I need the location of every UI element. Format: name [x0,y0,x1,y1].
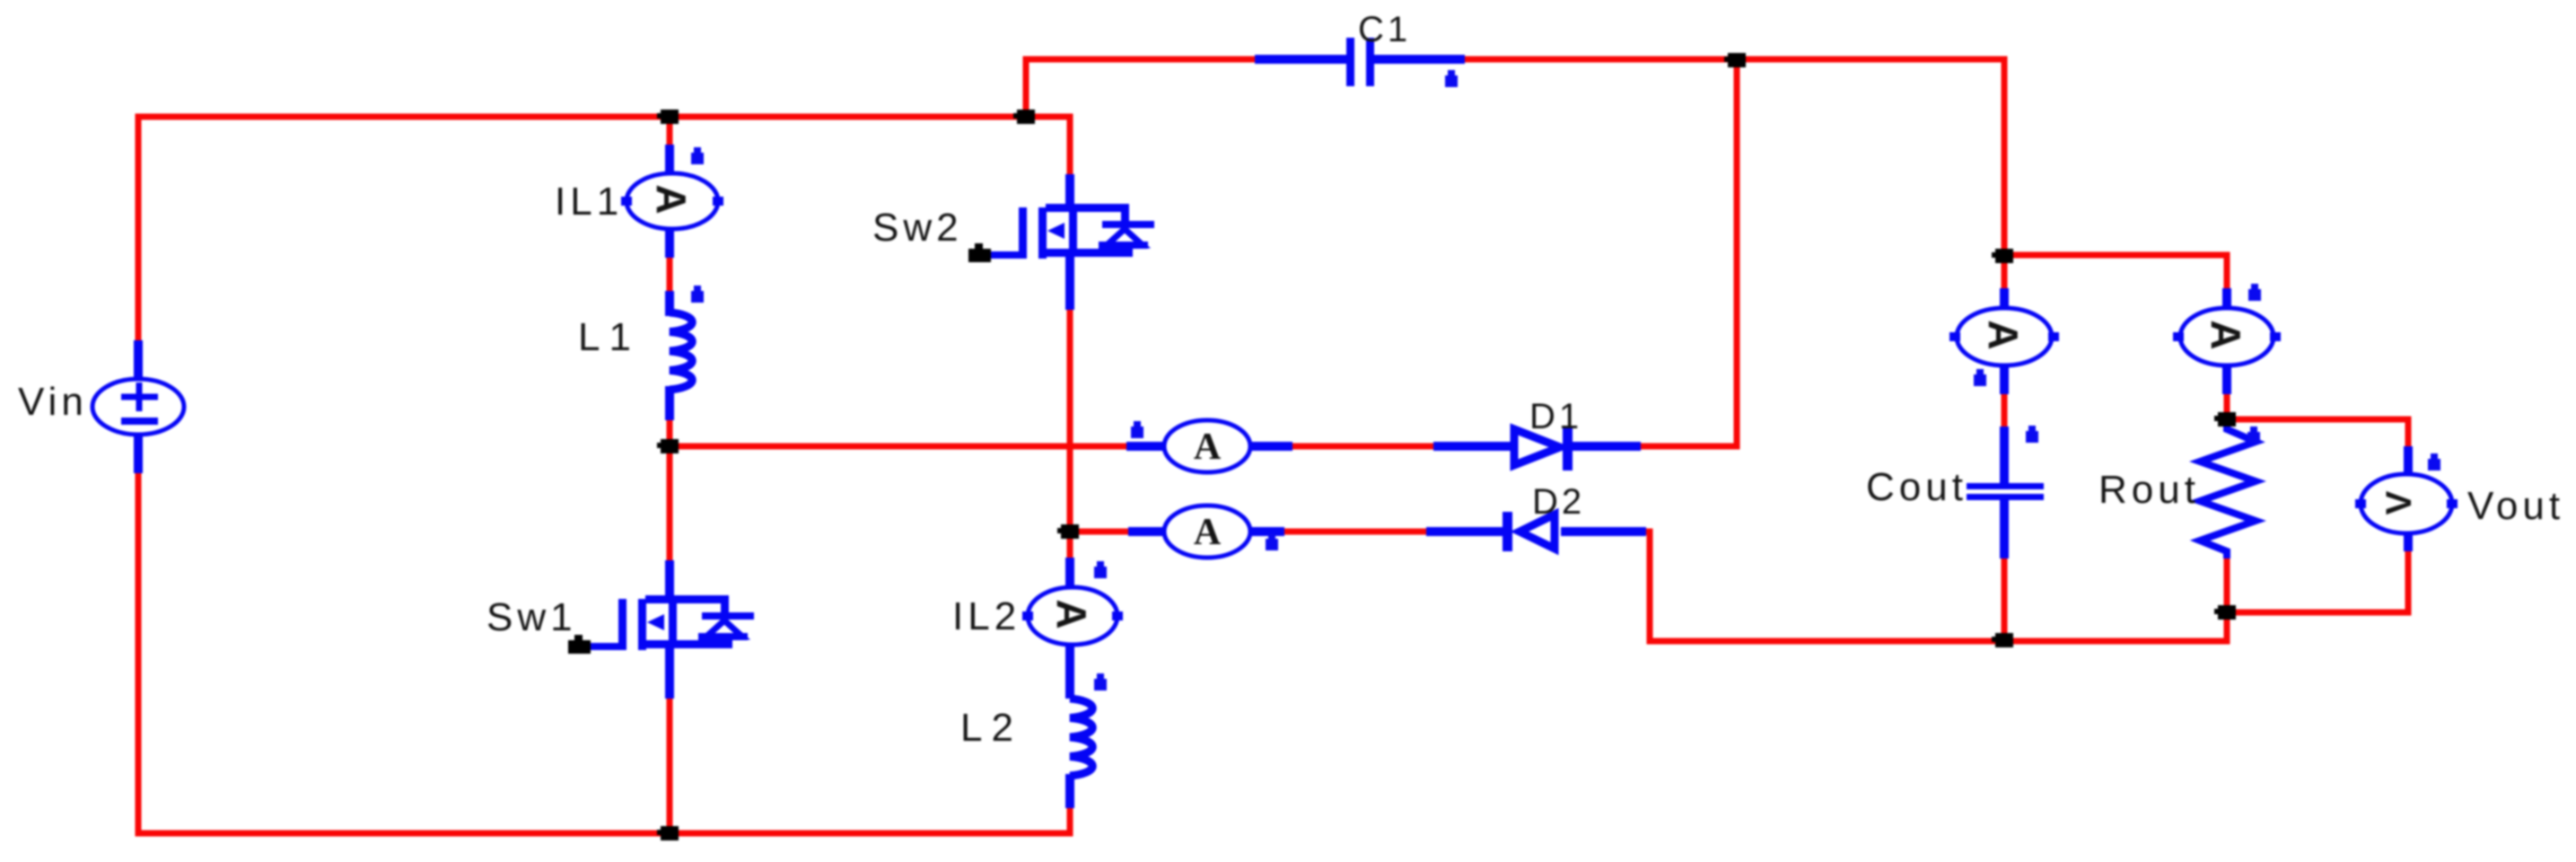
svg-text:Sw1: Sw1 [486,595,577,639]
polarity dot ICout [1974,369,1986,386]
svg-text:C1: C1 [1358,10,1411,49]
svg-text:Cout: Cout [1866,465,1967,509]
svg-text:Sw2: Sw2 [872,206,963,250]
wire: riser from D1 to C1 node [1641,59,1737,446]
junction node Rout bottom / Vout bottom [2214,605,2236,620]
wire: C1 left riser from top rail [1026,59,1255,117]
svg-text:D2: D2 [1532,482,1585,522]
transistor Sw1 [568,560,754,699]
junction node top-right / Cout branch [1992,249,2013,263]
capacitor Cout [1967,427,2044,559]
label Vout [2467,484,2564,528]
polarity dot ammeter row1 [1131,421,1143,438]
diode D1 [1433,428,1641,471]
svg-text:A: A [1048,599,1095,629]
svg-text:Rout: Rout [2098,468,2200,512]
label Sw1 [486,595,577,639]
wire: D2 cathode down to output bottom rail [1646,532,2227,641]
transistor Sw2 [968,174,1154,310]
wire: row1 mid red [1292,444,1433,450]
label L1 [578,315,640,359]
wire: node B stub to ammeter [1070,529,1128,535]
ammeter IL2 [1022,558,1123,699]
wire: top rail from Vin to Sw2 drain [138,117,1070,340]
wire: Sw2 source down to node B [1067,310,1073,558]
voltage source Vin [92,340,184,473]
junction node top rail / C1 riser [1013,110,1035,124]
svg-text:A: A [1194,427,1222,468]
svg-text:V: V [2379,490,2419,515]
polarity dot L1 [691,286,704,303]
wire: Sw1 source to bottom rail [667,699,673,833]
wire: IL1 top stub [667,117,673,145]
svg-text:IL2: IL2 [952,594,1021,638]
polarity dot Vout [2428,453,2440,471]
wire: L1 to Sw1 drain [667,420,673,560]
junction node Rout top / Vout link [2214,412,2236,427]
capacitor C1 [1255,38,1465,86]
polarity dot C1 [1445,70,1458,87]
svg-text:L2: L2 [960,706,1022,750]
label IL1 [555,180,623,224]
label D2 [1532,482,1585,522]
wire: Rout branch red stubs [2224,394,2230,612]
label Rout [2098,468,2200,512]
wire: C1 right to top-right corner [1465,59,2004,255]
svg-text:Vin: Vin [18,380,88,424]
polarity dot Rout [2247,427,2260,444]
wire: Cout branch red stubs [2002,255,2008,641]
junction node top rail / IL1 [657,110,679,124]
resistor Rout [2200,422,2256,559]
svg-text:D1: D1 [1529,397,1582,436]
junction node A: L1 bottom [657,439,679,453]
inductor L1 [670,291,692,420]
junction node Sw1 source / bottom rail [657,826,679,840]
wire: IL1 to L1 stub [667,255,673,291]
polarity dot L2 [1094,673,1107,690]
wire: Vout top link [2227,419,2408,446]
polarity dot IRout [2248,284,2261,301]
polarity dot IL1 [691,147,704,164]
polarity dot IL2 [1094,561,1107,578]
diode D2 [1426,512,1646,551]
svg-text:A: A [2203,320,2249,349]
svg-text:A: A [1194,512,1222,553]
wire: row2 mid red [1284,529,1426,535]
label Vin [18,380,88,424]
junction node B: Sw2 source / IL2 [1057,524,1079,539]
label D1 [1529,397,1582,436]
junction node Cout bottom [1992,633,2013,647]
label C1 [1358,10,1411,49]
ammeter A row1 [1126,420,1292,472]
wire: bottom rail from Vin to L2 [138,473,1070,833]
label Cout [1866,465,1967,509]
svg-text:A: A [648,184,695,214]
ammeter IL1 [621,145,723,258]
svg-text:L1: L1 [578,315,640,359]
svg-text:A: A [1980,320,2027,349]
wire: node A horizontal from L1 bottom [670,444,1126,450]
ammeter ICout [1950,288,2059,394]
label IL2 [952,594,1021,638]
ammeter A row2 [1128,506,1284,558]
voltmeter Vout [2355,446,2458,551]
label Sw2 [872,206,963,250]
svg-text:Vout: Vout [2467,484,2564,528]
ammeter IRout [2173,288,2281,394]
wire: Vout bottom link [2227,551,2408,612]
polarity dot Cout [2026,426,2038,443]
label L2 [960,706,1022,750]
svg-text:IL1: IL1 [555,180,623,224]
junction node C1 right / D1 riser [1724,53,1746,67]
inductor L2 [1070,699,1092,808]
wire: output top link to Rout branch [2004,255,2227,288]
polarity dot ammeter row2 [1266,533,1278,550]
